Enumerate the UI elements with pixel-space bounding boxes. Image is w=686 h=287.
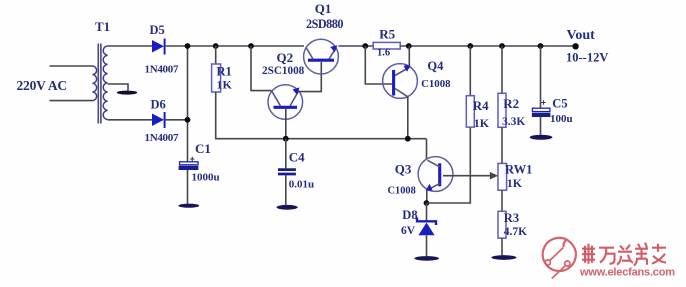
svg-text:2SD880: 2SD880 [306, 17, 343, 31]
capacitor C1 [190, 157, 194, 161]
svg-text:3.3K: 3.3K [502, 116, 525, 128]
svg-text:Vout: Vout [567, 28, 596, 43]
wire top rail D5 to Q1 [165, 45, 304, 47]
wire Q4 collector down [407, 97, 409, 139]
svg-text:Q1: Q1 [315, 1, 332, 16]
svg-text:0.01u: 0.01u [289, 179, 314, 191]
svg-text:R5: R5 [379, 27, 395, 42]
node dot Q2 collector [248, 43, 254, 49]
transformer T1 primary winding [93, 66, 97, 101]
diode D6 [152, 114, 164, 127]
resistor R2 [501, 46, 503, 93]
svg-text:RW1: RW1 [505, 162, 532, 176]
capacitor C4 [285, 139, 287, 169]
transformer T1 secondary winding [103, 46, 107, 120]
zener D8 [426, 203, 428, 221]
wire RW1 to R3 [501, 190, 503, 211]
node dot D6 [185, 117, 191, 123]
wire secondary bottom to D6 [108, 119, 152, 121]
svg-text:D5: D5 [150, 23, 165, 37]
transistor Q3 [418, 157, 453, 192]
ground C1 [178, 204, 199, 208]
resistor R4 [469, 46, 471, 96]
svg-text:R1: R1 [217, 64, 232, 78]
wire D6 to node [165, 119, 188, 121]
wire secondary top to D5 [108, 45, 152, 47]
wire Q1 emitter to R5 [338, 45, 373, 47]
wire Q4 emitter up [408, 46, 410, 67]
wire AC input bottom [50, 100, 93, 102]
ground center tap [117, 91, 137, 95]
svg-text:1N4007: 1N4007 [145, 132, 179, 144]
ground C5 [530, 135, 553, 140]
node Vout [572, 43, 578, 49]
node dot R4 top [467, 43, 473, 49]
ground C4 [277, 205, 298, 210]
node dot R5 left / Q4 base [362, 43, 368, 49]
node dot rail/C1 [185, 43, 191, 49]
wire R4 bottom L [427, 127, 471, 203]
wire Q3 base to RW1 wiper [443, 175, 493, 177]
watermark logo circle [543, 238, 576, 279]
svg-text:R3: R3 [504, 211, 519, 225]
wire AC input top [50, 65, 93, 67]
svg-text:R2: R2 [503, 96, 519, 111]
svg-text:D6: D6 [151, 98, 166, 112]
svg-text:100u: 100u [550, 113, 573, 125]
node dot Q4 collector [405, 136, 411, 142]
wire R3 to ground [501, 238, 503, 255]
svg-text:10--12V: 10--12V [566, 50, 608, 64]
svg-text:www.elecfans.com: www.elecfans.com [579, 266, 675, 278]
svg-text:1K: 1K [217, 78, 233, 92]
svg-text:2SC1008: 2SC1008 [262, 65, 305, 77]
svg-text:C1: C1 [195, 141, 211, 156]
wire D8 to ground [426, 235, 428, 256]
wire Q2 collector [251, 46, 272, 91]
potentiometer RW1 [498, 163, 507, 190]
wire C1 to ground [187, 170, 189, 204]
wire Q3 emitter down [426, 190, 428, 203]
resistor R3 [498, 211, 506, 238]
node dot Q3 emitter [424, 200, 430, 206]
wire Q4 base [365, 46, 392, 84]
svg-text:D8: D8 [402, 208, 417, 222]
node dot R1 top [213, 43, 219, 49]
svg-text:220V AC: 220V AC [17, 78, 67, 93]
svg-text:R4: R4 [473, 98, 489, 113]
ground D8 [414, 256, 439, 261]
svg-text:4.7K: 4.7K [504, 226, 527, 238]
transistor Q1 [304, 39, 339, 74]
transistor Q2 [268, 85, 303, 120]
wire to Q3 collector [426, 139, 428, 160]
svg-text:6V: 6V [401, 225, 416, 237]
svg-text:C4: C4 [289, 149, 305, 164]
wire R2 to RW1 [501, 127, 503, 163]
svg-text:1.6: 1.6 [377, 47, 390, 58]
svg-text:C1008: C1008 [421, 78, 451, 90]
svg-text:1K: 1K [474, 116, 490, 130]
wire Q2 emitter to Q1 base [299, 62, 322, 92]
svg-text:Q4: Q4 [427, 59, 444, 73]
svg-text:1000u: 1000u [192, 171, 220, 183]
ground R3 [491, 255, 516, 260]
resistor R5 [373, 42, 400, 49]
transistor Q4 [383, 64, 418, 99]
diode D5 [152, 40, 164, 53]
transformer T1 core [97, 44, 99, 124]
svg-text:Q3: Q3 [395, 162, 412, 177]
svg-text:C5: C5 [552, 96, 567, 110]
node dot C5 top [538, 43, 544, 49]
svg-text:1K: 1K [507, 176, 523, 190]
svg-text:C1008: C1008 [388, 186, 416, 197]
resistor R1 [215, 46, 217, 64]
wire C5 to ground [540, 117, 542, 135]
wire R1 bottom to base rail [216, 92, 427, 139]
svg-text:1N4007: 1N4007 [145, 64, 179, 76]
watermark chinese text [582, 243, 666, 266]
wire center tap [108, 84, 128, 91]
wire Q2 base down [285, 109, 287, 139]
svg-text:Q2: Q2 [277, 50, 294, 65]
node dot Q2 base [283, 136, 289, 142]
svg-text:T1: T1 [95, 19, 110, 34]
wire C4 to ground [285, 175, 287, 205]
wire vertical D6 node to rail and C1 [187, 46, 189, 163]
wire R5 right to rail [400, 45, 575, 47]
capacitor C5 [540, 46, 542, 108]
node dot R5 right / Q4 emitter [406, 43, 412, 49]
node dot R2 top [499, 43, 505, 49]
